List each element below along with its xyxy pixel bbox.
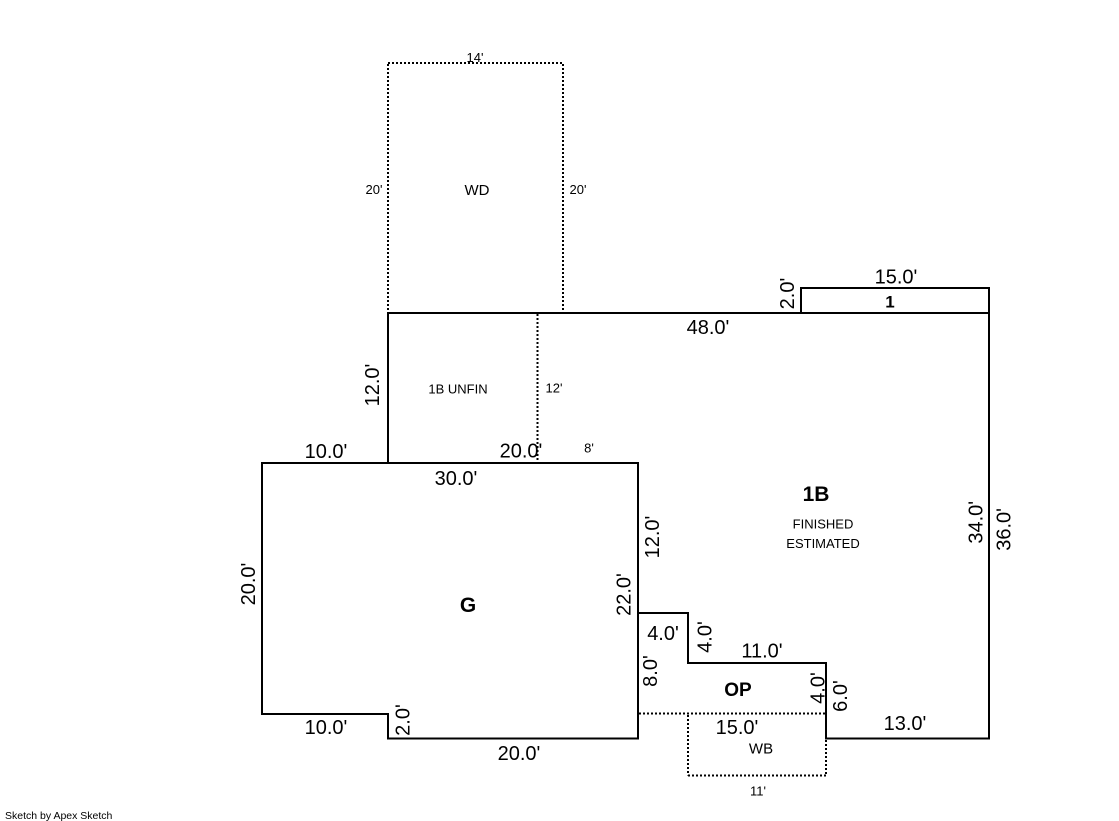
- svg-text:48.0': 48.0': [687, 317, 730, 339]
- svg-text:12': 12': [546, 381, 563, 396]
- svg-text:36.0': 36.0': [993, 508, 1015, 551]
- svg-text:2.0': 2.0': [393, 704, 415, 736]
- wire: OP bottom dotted (15.0'): [639, 713, 825, 715]
- svg-text:WB: WB: [749, 741, 773, 758]
- svg-text:8': 8': [584, 441, 594, 456]
- svg-text:4.0': 4.0': [808, 672, 830, 704]
- wire: WB bottom dotted (11'): [688, 775, 826, 777]
- svg-text:1B UNFIN: 1B UNFIN: [428, 382, 487, 397]
- wall: G notch (2.0'): [387, 713, 389, 739]
- svg-text:OP: OP: [724, 680, 752, 701]
- svg-text:34.0': 34.0': [966, 501, 988, 544]
- svg-text:13.0': 13.0': [884, 713, 927, 735]
- wall: G bottom-left (10.0'): [261, 713, 389, 715]
- svg-text:22.0': 22.0': [614, 573, 636, 616]
- svg-text:20': 20': [366, 182, 383, 197]
- wall: right edge (36.0'): [988, 287, 990, 739]
- wall: OP right (6.0'): [825, 662, 827, 740]
- wire: WD deck top dotted (14'): [388, 62, 563, 64]
- wall: G left (20.0'): [261, 462, 263, 715]
- wall: G top (30.0'): [261, 462, 639, 464]
- wire: WB right dotted: [825, 740, 827, 776]
- svg-text:30.0': 30.0': [435, 468, 478, 490]
- wall: OP step top (4.0'): [637, 612, 689, 614]
- wire: 1B unfin divider dotted (12'): [537, 314, 539, 462]
- wall: G right (22.0'): [637, 462, 639, 739]
- wire: WB left dotted: [687, 715, 689, 776]
- svg-text:8.0': 8.0': [640, 655, 662, 687]
- svg-text:20': 20': [570, 182, 587, 197]
- wire: WD deck left dotted (20'): [387, 64, 389, 312]
- wall: 1B unfin left (12.0'): [387, 312, 389, 464]
- svg-text:Sketch by Apex Sketch: Sketch by Apex Sketch: [5, 810, 113, 821]
- svg-text:15.0': 15.0': [875, 267, 918, 289]
- svg-text:14': 14': [467, 50, 484, 65]
- svg-text:15.0': 15.0': [716, 717, 759, 739]
- svg-text:2.0': 2.0': [777, 278, 799, 310]
- wall: 1B top (48.0'): [387, 312, 990, 314]
- wall: G bottom (20.0'): [387, 738, 639, 740]
- svg-text:20.0': 20.0': [238, 563, 260, 606]
- svg-text:20.0': 20.0': [500, 441, 543, 463]
- wall: area 1 top (15.0'): [800, 287, 990, 289]
- svg-text:G: G: [460, 594, 476, 617]
- svg-text:12.0': 12.0': [642, 516, 664, 559]
- svg-text:1B: 1B: [803, 483, 830, 506]
- svg-text:12.0': 12.0': [362, 364, 384, 407]
- svg-text:4.0': 4.0': [695, 621, 717, 653]
- svg-text:4.0': 4.0': [647, 623, 679, 645]
- svg-text:11.0': 11.0': [741, 641, 782, 663]
- svg-text:FINISHED: FINISHED: [793, 517, 854, 532]
- wire: WD deck right dotted (20'): [562, 64, 564, 312]
- svg-text:6.0': 6.0': [830, 680, 852, 712]
- svg-text:1: 1: [885, 293, 894, 312]
- svg-text:20.0': 20.0': [498, 743, 541, 765]
- wall: OP top (11.0'): [687, 662, 827, 664]
- svg-text:WD: WD: [465, 182, 490, 199]
- wall: bottom right (13.0'): [825, 738, 990, 740]
- svg-text:10.0': 10.0': [305, 441, 348, 463]
- wall: area 1 left (2.0'): [800, 287, 802, 313]
- svg-text:ESTIMATED: ESTIMATED: [786, 536, 859, 551]
- svg-text:10.0': 10.0': [305, 717, 348, 739]
- svg-text:11': 11': [750, 784, 766, 799]
- wall: OP step left (4.0'): [687, 612, 689, 664]
